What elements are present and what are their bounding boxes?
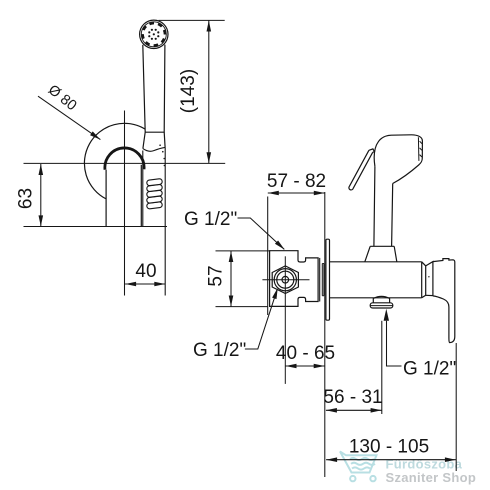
dimension 40 line: [125, 283, 165, 285]
dimension 130-105 line: [326, 459, 456, 461]
svg-text:(143): (143): [178, 69, 199, 113]
svg-text:56 - 31: 56 - 31: [323, 387, 382, 408]
hose line right / 40 extension: [164, 147, 166, 295]
hand spray head: [374, 135, 422, 184]
svg-text:40: 40: [135, 261, 156, 282]
dimension (143) line: [208, 20, 210, 163]
dimension 63 arrows: [39, 164, 44, 226]
svg-text:G 1/2": G 1/2": [193, 340, 246, 361]
head rim slots: [143, 23, 165, 45]
outlet nut: [370, 303, 393, 308]
svg-text:130 - 105: 130 - 105: [349, 437, 429, 458]
svg-text:57 - 82: 57 - 82: [267, 171, 326, 192]
dimension (143) arrows: [207, 21, 212, 164]
dimension 56-31 right extension: [381, 321, 383, 414]
wall escutcheon circle O80 (visible arc): [84, 123, 145, 199]
spray nose tick marks: [420, 141, 422, 157]
dimension 63 bottom extension line: [24, 226, 168, 228]
shower handle (front view): [143, 45, 165, 149]
handle end wavy joint: [143, 147, 165, 151]
wall escutcheon plate (side view): [326, 239, 330, 320]
concealed valve body (front view): [270, 251, 319, 307]
svg-text:Ø 80: Ø 80: [45, 82, 80, 114]
valve crosshair horizontal: [262, 279, 309, 281]
dimension 40 arrows: [125, 282, 165, 287]
wall face line: [324, 192, 326, 477]
hidden circle arc dots: [159, 144, 165, 166]
horizontal centerline through escutcheon: [24, 162, 226, 164]
hand spray handle (side view): [370, 166, 394, 246]
svg-text:G 1/2": G 1/2": [403, 359, 456, 380]
valve sleeve strip: [322, 264, 324, 296]
mixer body cylinder (side view): [330, 262, 426, 298]
hose conical spring coil: [147, 178, 163, 209]
dimension 130-105 right extension: [455, 343, 457, 471]
spray trigger lever: [349, 149, 375, 190]
svg-text:40 - 65: 40 - 65: [276, 343, 335, 364]
dimension 63 line: [40, 164, 42, 226]
valve hex nut: [272, 266, 298, 294]
dimension 57 line: [230, 251, 232, 307]
svg-text:57: 57: [206, 265, 227, 286]
dimension 56-31 line: [326, 409, 382, 411]
hose line left: [142, 151, 144, 227]
lever handle: [433, 259, 455, 343]
head nozzle dots: [148, 29, 159, 40]
outlet dome: [373, 296, 389, 302]
dimension 40-65 line: [286, 365, 325, 367]
hand spray base cone: [365, 246, 397, 261]
outlet elbow body: [106, 165, 141, 227]
valve flange face double line: [319, 258, 321, 302]
label G 1/2 bottom right leader: [387, 321, 402, 366]
svg-text:G 1/2": G 1/2": [184, 209, 237, 230]
dimension 57 extensions: [216, 251, 271, 307]
hand shower head (top view circle): [140, 20, 168, 48]
label G 1/2 top leader: [238, 218, 285, 249]
spray nose inner line: [417, 137, 420, 161]
svg-text:Szaniter Shop: Szaniter Shop: [386, 470, 477, 485]
svg-text:63: 63: [16, 188, 37, 209]
watermark cart icon: [340, 452, 377, 482]
label G 1/2 bottom left leader: [245, 290, 277, 349]
handle hub adapter: [426, 262, 433, 296]
vertical centerline of holder: [124, 111, 126, 296]
dimension 57-82 left extension: [267, 197, 269, 316]
valve crosshair vertical / 40-65 extension: [284, 256, 286, 384]
holder hook arc: [105, 148, 144, 170]
valve port circles: [274, 269, 296, 291]
label O80 leader: [38, 96, 100, 139]
dimension 57-82 line: [268, 192, 325, 194]
top reference line of (143): [159, 19, 225, 21]
